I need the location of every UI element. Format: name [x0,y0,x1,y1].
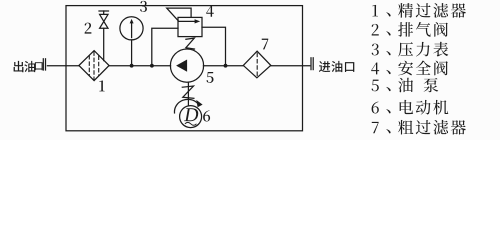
port label: 出油口 (oil outlet) [14,61,43,72]
safety valve spring [186,38,195,49]
label 7 [262,39,269,50]
label 4 [206,6,214,17]
filter F7 dashed element [256,53,258,76]
wire: left port line to filter 1 [47,65,79,67]
wire: valve V2 down to filter edge [103,28,105,60]
port label: 进油口 (oil inlet) [319,61,354,72]
wire: filter 7 to right port [271,65,310,67]
coupling zigzag [182,86,194,98]
junction node under gauge [130,64,134,68]
legend row 7: 7、粗过滤器 (coarse filter) [372,120,466,135]
safety valve arrow [179,20,197,22]
pump triangle [176,60,187,72]
pump P5 circle [170,49,203,82]
legend row 4: 4、安全阀 (safety valve) [371,61,448,76]
filter F7 diamond [243,51,270,78]
filter F1 dashed element [89,52,98,79]
junction node left bypass [150,64,154,68]
legend row 6: 6、电动机 (electric motor) [372,100,449,115]
legend row 1: 1、精过滤器 (fine filter) [372,3,465,18]
right port double tick [310,58,312,70]
shaft: pump to motor [187,82,189,106]
wire: valve V4 right branch [202,27,226,65]
label 6 [203,110,210,121]
motor M6 circle [180,106,202,128]
wire: valve V4 left branch [152,28,178,65]
motor AC tilde [185,122,197,125]
safety valve V4 body [178,17,202,36]
exhaust valve V2 cap [99,10,109,12]
legend row 2: 2、排气阀 (exhaust valve) [372,22,448,37]
label 1 [99,80,104,91]
legend row 3: 3、压力表 (pressure gauge) [372,42,449,57]
wire: gauge drop to main line [131,40,133,66]
enclosure border [66,6,303,131]
label 2 [85,23,92,34]
exhaust valve V2 bowtie [100,14,108,28]
wire: filter 1 to pump [109,65,171,67]
label 5 [207,72,214,83]
junction node right bypass [224,64,228,68]
legend row 5: 5、油泵 (oil pump) [372,78,439,93]
motor letter D [184,108,198,121]
pressure gauge G3 circle [120,17,143,40]
wire: pump to filter 7 [203,65,243,67]
filter F1 diamond [79,51,109,81]
left port double tick [42,59,44,70]
motor rotation arrow [174,99,197,113]
safety valve pilot flag [167,8,191,21]
gauge needle [131,23,133,38]
label 3 [140,1,147,12]
